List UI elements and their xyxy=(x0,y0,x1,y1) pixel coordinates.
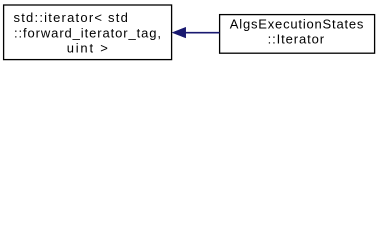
node box: std::iterator xyxy=(4,5,172,60)
svg-text:::Iterator: ::Iterator xyxy=(268,32,325,47)
inheritance arrow wire xyxy=(185,32,220,34)
inheritance arrowhead xyxy=(172,27,186,38)
svg-text:std::iterator< std: std::iterator< std xyxy=(14,10,130,25)
svg-text:::forward_iterator_tag,: ::forward_iterator_tag, xyxy=(14,25,162,40)
node box: AlgsExecutionStates::Iterator xyxy=(220,15,375,54)
svg-text:uint >: uint > xyxy=(67,40,110,55)
svg-text:AlgsExecutionStates: AlgsExecutionStates xyxy=(230,16,364,31)
